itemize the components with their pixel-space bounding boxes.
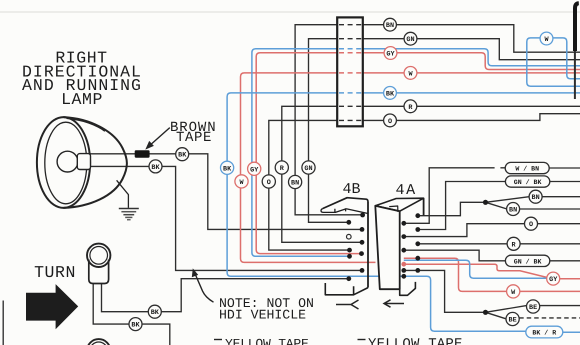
- svg-text:YELLOW TAPE: YELLOW TAPE: [368, 337, 463, 345]
- svg-text:BK: BK: [386, 90, 395, 98]
- svg-text:GN / BK: GN / BK: [514, 179, 542, 186]
- svg-text:O: O: [388, 118, 392, 126]
- svg-text:BK: BK: [151, 309, 160, 317]
- svg-text:BK: BK: [178, 152, 187, 160]
- svg-text:GY: GY: [386, 51, 395, 59]
- svg-text:BN: BN: [509, 207, 517, 215]
- svg-text:BK: BK: [223, 165, 232, 173]
- svg-text:BN: BN: [532, 194, 540, 202]
- svg-text:YELLOW TAPE: YELLOW TAPE: [225, 336, 309, 345]
- svg-text:4B: 4B: [343, 181, 361, 198]
- svg-text:O: O: [267, 179, 271, 187]
- svg-text:BN: BN: [386, 22, 394, 30]
- svg-text:BE: BE: [529, 304, 537, 312]
- svg-text:BE: BE: [509, 317, 517, 325]
- svg-text:BK: BK: [131, 322, 140, 330]
- svg-text:GY: GY: [549, 276, 558, 284]
- svg-text:GN: GN: [406, 36, 414, 44]
- svg-text:LAMP: LAMP: [61, 90, 103, 109]
- svg-text:GN / BK: GN / BK: [514, 258, 542, 265]
- svg-text:BK / R: BK / R: [532, 330, 556, 337]
- svg-text:HDI VEHICLE: HDI VEHICLE: [219, 308, 306, 323]
- svg-text:BK: BK: [151, 164, 160, 172]
- svg-text:BN: BN: [291, 180, 299, 188]
- svg-text:TAPE: TAPE: [176, 130, 212, 146]
- svg-text:GN: GN: [304, 165, 312, 173]
- svg-text:GY: GY: [250, 166, 259, 174]
- svg-text:W / BN: W / BN: [515, 166, 539, 173]
- svg-text:TURN: TURN: [34, 263, 76, 282]
- svg-text:O: O: [529, 221, 533, 229]
- svg-text:4A: 4A: [396, 182, 417, 199]
